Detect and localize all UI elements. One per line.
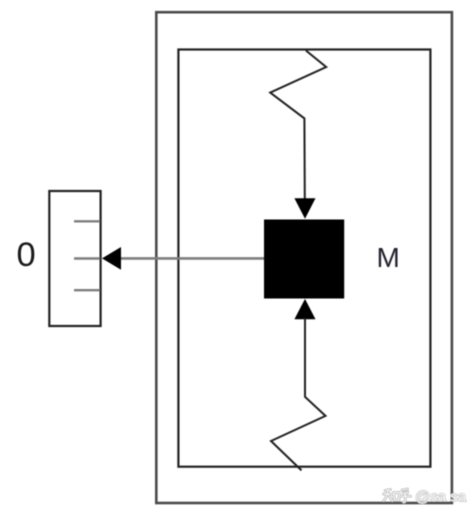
svg-text:0: 0: [17, 236, 36, 274]
svg-text:@sa sa: @sa sa: [415, 489, 467, 506]
svg-text:M: M: [377, 242, 400, 273]
